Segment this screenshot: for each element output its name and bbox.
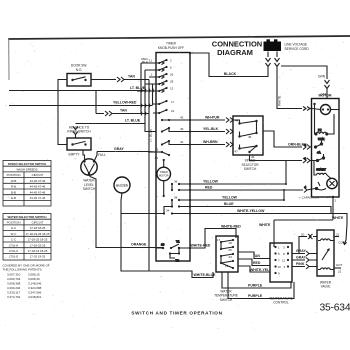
svg-text:SERVICE CORD: SERVICE CORD <box>285 47 310 51</box>
svg-text:ITI: ITI <box>318 128 322 132</box>
svg-text:3,324,688: 3,324,688 <box>28 286 42 290</box>
wires water temp switch to temperature control: TAN RED WHITE-YEL <box>238 252 270 272</box>
svg-text:4: 4 <box>284 265 286 269</box>
svg-text:B-B: B-B <box>11 190 16 194</box>
service cord pin connectors (chevrons) <box>266 52 280 78</box>
svg-text:1: 1 <box>278 246 280 250</box>
svg-text:LINE VOLTAGE: LINE VOLTAGE <box>285 43 308 47</box>
svg-text:4,048,821: 4,048,821 <box>28 295 42 299</box>
svg-text:34: 34 <box>166 209 170 213</box>
wires timer to speed selector switch <box>190 115 233 147</box>
temperature control box <box>269 243 293 305</box>
water level switch <box>69 150 107 191</box>
svg-text:3,067,310: 3,067,310 <box>7 273 21 277</box>
connector chevrons into advance switch <box>73 127 78 139</box>
svg-text:WHITE: WHITE <box>278 96 282 106</box>
speed selector switch table <box>3 161 51 207</box>
svg-text:13: 13 <box>170 87 174 91</box>
svg-text:17: 17 <box>217 238 221 242</box>
svg-text:TAN: TAN <box>120 109 127 113</box>
frame left border <box>8 39 10 81</box>
svg-text:26: 26 <box>170 73 174 77</box>
door switch DOOR SW N.O. <box>67 64 91 87</box>
svg-text:17: 17 <box>171 100 175 104</box>
svg-text:47: 47 <box>235 150 239 154</box>
svg-text:HOT: HOT <box>336 263 343 267</box>
wire LT BLUE lower <box>76 119 146 124</box>
wire WHITE to temperature control 1 <box>259 220 274 247</box>
wires temperature control to water valve GRAY GRAY PINK <box>292 249 317 269</box>
svg-text:E-B: E-B <box>11 196 16 200</box>
svg-text:17-18 18-25: 17-18 18-25 <box>30 226 46 230</box>
svg-text:17-18-19-25 18-25: 17-18-19-25 18-25 <box>26 232 50 236</box>
valve terminal labels COLD HOT <box>334 233 348 274</box>
svg-text:PURPLE: PURPLE <box>248 283 263 287</box>
svg-text:+ CAPACITOR: + CAPACITOR <box>299 195 320 199</box>
svg-text:44-45 47-46: 44-45 47-46 <box>30 196 46 200</box>
wire ORN-BLK speed selector to motor 5 <box>263 131 312 150</box>
wire RED bus to motor 4 <box>190 186 312 193</box>
motor start winding <box>314 161 337 189</box>
wire YELLOW lower bus <box>190 189 285 201</box>
svg-text:CIRCUIT: CIRCUIT <box>32 173 44 177</box>
svg-text:21: 21 <box>336 233 340 237</box>
svg-text:3,374,791: 3,374,791 <box>7 295 21 299</box>
svg-text:44-45 47-46: 44-45 47-46 <box>30 185 46 189</box>
svg-text:START: START <box>316 168 326 172</box>
timer upper terminal numbers <box>149 59 174 91</box>
svg-text:42: 42 <box>180 140 184 144</box>
svg-text:11: 11 <box>149 59 152 63</box>
wire GRAY advance/water-level to timer <box>97 147 148 152</box>
line voltage service cord plug <box>264 39 310 51</box>
wire WHITE-RED timer to water temp switch <box>190 224 241 248</box>
wire speed selector 46 to motor 3 <box>250 155 313 163</box>
svg-text:23: 23 <box>229 255 233 259</box>
svg-text:W-C: W-C <box>11 232 17 236</box>
svg-text:3,098,40: 3,098,40 <box>28 277 40 281</box>
wires water temp switch to purple <box>222 272 294 299</box>
svg-text:WHITE-YEL: WHITE-YEL <box>250 268 270 272</box>
svg-text:49: 49 <box>180 127 184 131</box>
svg-text:15: 15 <box>155 148 159 152</box>
svg-text:BLK: BLK <box>142 60 148 64</box>
wire GRN ground to motor <box>281 66 330 99</box>
svg-text:POSITION: POSITION <box>7 173 21 177</box>
svg-text:36: 36 <box>174 180 178 184</box>
svg-text:43: 43 <box>180 116 184 120</box>
svg-text:WASH SPEEDS: WASH SPEEDS <box>16 168 37 172</box>
svg-text:4A: 4A <box>317 151 321 155</box>
svg-text:45: 45 <box>248 135 252 139</box>
svg-text:WHITE: WHITE <box>332 216 344 220</box>
svg-text:YELLOW: YELLOW <box>222 195 238 199</box>
svg-text:VALVE: VALVE <box>321 285 331 289</box>
svg-text:8: 8 <box>283 252 285 256</box>
wire YELLOW-RED <box>9 100 152 105</box>
svg-text:25: 25 <box>229 248 233 252</box>
svg-text:18: 18 <box>229 241 233 245</box>
svg-text:7: 7 <box>278 259 280 263</box>
svg-text:LT. BLUE: LT. BLUE <box>130 86 146 90</box>
svg-text:3,090,703: 3,090,703 <box>7 277 21 281</box>
wire BLACK from timer L1 to plug <box>190 53 268 77</box>
svg-text:SWITCH: SWITCH <box>244 167 257 171</box>
svg-text:YELLOW-RED: YELLOW-RED <box>113 100 137 104</box>
timer bottom contacts T1 T2 <box>156 240 190 263</box>
svg-text:FULL: FULL <box>98 153 106 157</box>
motor main winding circle <box>312 105 339 115</box>
buzzer <box>114 177 130 193</box>
svg-text:3,098,368: 3,098,368 <box>7 282 21 286</box>
svg-text:BLUE: BLUE <box>224 202 234 206</box>
motor main coil <box>315 104 335 141</box>
svg-text:W-B: W-B <box>11 179 17 183</box>
title CONNECTION DIAGRAM <box>212 39 262 57</box>
svg-text:BLACK: BLACK <box>224 72 237 76</box>
svg-text:17-18-19 18-25: 17-18-19 18-25 <box>28 249 48 253</box>
water selector switch table <box>3 214 51 261</box>
svg-text:TIMER: TIMER <box>160 170 168 174</box>
svg-text:3: 3 <box>283 246 285 250</box>
timer lower terminal numbers <box>166 180 178 213</box>
svg-text:WHITE: WHITE <box>259 223 271 227</box>
svg-text:10: 10 <box>278 265 282 269</box>
svg-text:LT. BLUE: LT. BLUE <box>125 119 141 123</box>
svg-text:WHITE-RED: WHITE-RED <box>191 243 211 247</box>
svg-text:17-25 19-25: 17-25 19-25 <box>30 255 46 259</box>
svg-text:28: 28 <box>170 80 174 84</box>
timer mid contacts (speed feeds) <box>148 100 190 156</box>
svg-text:TAN: TAN <box>128 75 135 79</box>
svg-text:SWITCH AND TIMER OPERATION: SWITCH AND TIMER OPERATION <box>131 311 222 316</box>
svg-text:35-6345: 35-6345 <box>320 303 350 314</box>
svg-text:GRN: GRN <box>318 75 326 79</box>
frame top border <box>8 36 350 39</box>
svg-text:3,148,046: 3,148,046 <box>28 282 42 286</box>
svg-text:CONTROL: CONTROL <box>273 301 289 305</box>
svg-text:GRAY: GRAY <box>296 249 306 253</box>
timer upper cam contacts <box>145 59 168 93</box>
wire BLUE bus <box>190 202 331 214</box>
timer box <box>156 42 190 262</box>
motor box <box>312 94 340 197</box>
timer mid terminal numbers <box>155 100 184 152</box>
patents list <box>3 264 50 300</box>
svg-text:11: 11 <box>282 259 285 263</box>
svg-text:2: 2 <box>335 199 337 203</box>
svg-text:COLD: COLD <box>339 241 348 245</box>
svg-text:T2: T2 <box>176 259 180 263</box>
svg-text:20: 20 <box>301 232 305 236</box>
wire WHITE from plug down to motor <box>277 70 312 111</box>
svg-text:PURPLE: PURPLE <box>248 294 263 298</box>
svg-text:9: 9 <box>278 272 280 276</box>
motor start contact L and terminal 4 <box>304 182 326 190</box>
svg-text:17-18-25-25: 17-18-25-25 <box>30 243 46 247</box>
svg-text:PINK: PINK <box>296 262 305 266</box>
svg-text:61: 61 <box>155 156 159 160</box>
svg-text:SPEED SELECTOR SWITCH: SPEED SELECTOR SWITCH <box>8 162 47 166</box>
svg-text:RED: RED <box>205 186 213 190</box>
svg-text:YELLOW: YELLOW <box>203 180 219 184</box>
svg-text:CIRCUIT: CIRCUIT <box>32 221 44 225</box>
svg-text:N.O.: N.O. <box>76 68 83 72</box>
svg-text:POSITION: POSITION <box>7 221 21 225</box>
water valve box <box>317 230 334 289</box>
svg-text:SWITCH: SWITCH <box>83 187 96 191</box>
svg-text:TAN: TAN <box>253 254 260 258</box>
wire buzzer down to white-blue <box>121 214 213 278</box>
svg-text:21: 21 <box>171 109 175 113</box>
wire YELLOW upper bus <box>190 161 287 186</box>
svg-text:44: 44 <box>235 119 239 123</box>
speed selector switch <box>233 116 263 171</box>
svg-text:R-B: R-B <box>11 185 16 189</box>
wire LT BLUE upper <box>9 86 146 91</box>
svg-text:C-C: C-C <box>11 238 16 242</box>
svg-text:3,330,117: 3,330,117 <box>7 291 20 295</box>
svg-text:ORN-BLK: ORN-BLK <box>288 143 305 147</box>
svg-text:2: 2 <box>170 59 172 63</box>
wire buzzer to timer 34 <box>121 193 156 214</box>
motor contacts 3 <box>304 154 324 162</box>
svg-text:ORANGE: ORANGE <box>131 242 147 246</box>
svg-text:6: 6 <box>170 66 172 70</box>
svg-text:GRAY: GRAY <box>114 147 124 151</box>
svg-text:H-C: H-C <box>11 226 16 230</box>
advance to rinse switch <box>67 125 91 150</box>
wire ORANGE water level to timer 10 <box>89 174 163 248</box>
svg-text:WHITE-YELLOW: WHITE-YELLOW <box>237 209 265 213</box>
svg-text:WH-PUR: WH-PUR <box>205 115 220 119</box>
svg-text:WHITE-BLUE: WHITE-BLUE <box>194 273 217 277</box>
svg-text:3,347,066: 3,347,066 <box>28 291 42 295</box>
svg-text:WATER SELECTOR SWITCH: WATER SELECTOR SWITCH <box>8 215 47 219</box>
svg-text:19: 19 <box>225 264 229 268</box>
svg-text:LT01-E: LT01-E <box>9 255 18 259</box>
svg-text:WH-BRN: WH-BRN <box>203 140 218 144</box>
wire WHITE-YELLOW bus <box>190 209 347 244</box>
svg-text:MOTOR: MOTOR <box>159 173 169 177</box>
svg-text:WHITE-RED: WHITE-RED <box>221 224 241 228</box>
svg-text:44-45 47-46: 44-45 47-46 <box>30 179 46 183</box>
wire TAN door sw to timer <box>91 75 149 83</box>
timer motor <box>155 156 171 197</box>
svg-text:10: 10 <box>161 243 165 247</box>
svg-text:LT01-H: LT01-H <box>9 243 18 247</box>
svg-text:KNOB-PUSH OFF: KNOB-PUSH OFF <box>158 46 184 50</box>
motor centrifugal contacts 5 <box>304 140 322 155</box>
wire TAN lower <box>96 91 149 117</box>
svg-text:38: 38 <box>174 196 178 200</box>
left bus from door switch <box>58 80 67 145</box>
wire 20 white-yellow feed to valve <box>299 232 317 253</box>
svg-text:1: 1 <box>150 73 152 77</box>
svg-text:BUZZER: BUZZER <box>116 183 129 187</box>
svg-text:4: 4 <box>304 185 306 189</box>
wire WHITE motor to cold valve <box>274 216 344 220</box>
svg-text:3,086,15: 3,086,15 <box>28 273 40 277</box>
motor capacitor label and terminal 2 <box>299 110 339 221</box>
svg-text:17-19-25 18-25: 17-19-25 18-25 <box>28 238 48 242</box>
svg-text:MOTOR: MOTOR <box>319 94 332 98</box>
svg-text:YEL-BLK: YEL-BLK <box>203 127 219 131</box>
timer lower contacts (to right buses) <box>156 183 190 215</box>
svg-text:T1: T1 <box>176 240 180 244</box>
svg-text:RINSE SWITCH: RINSE SWITCH <box>67 130 91 134</box>
water temperature switch <box>214 236 238 302</box>
left bus risers near timer <box>137 63 156 271</box>
svg-text:EMPTY: EMPTY <box>69 153 81 157</box>
svg-text:DIAGRAM: DIAGRAM <box>217 48 253 57</box>
svg-text:21: 21 <box>338 270 342 274</box>
svg-text:RED: RED <box>253 261 261 265</box>
svg-text:3,290,204: 3,290,204 <box>7 286 21 290</box>
